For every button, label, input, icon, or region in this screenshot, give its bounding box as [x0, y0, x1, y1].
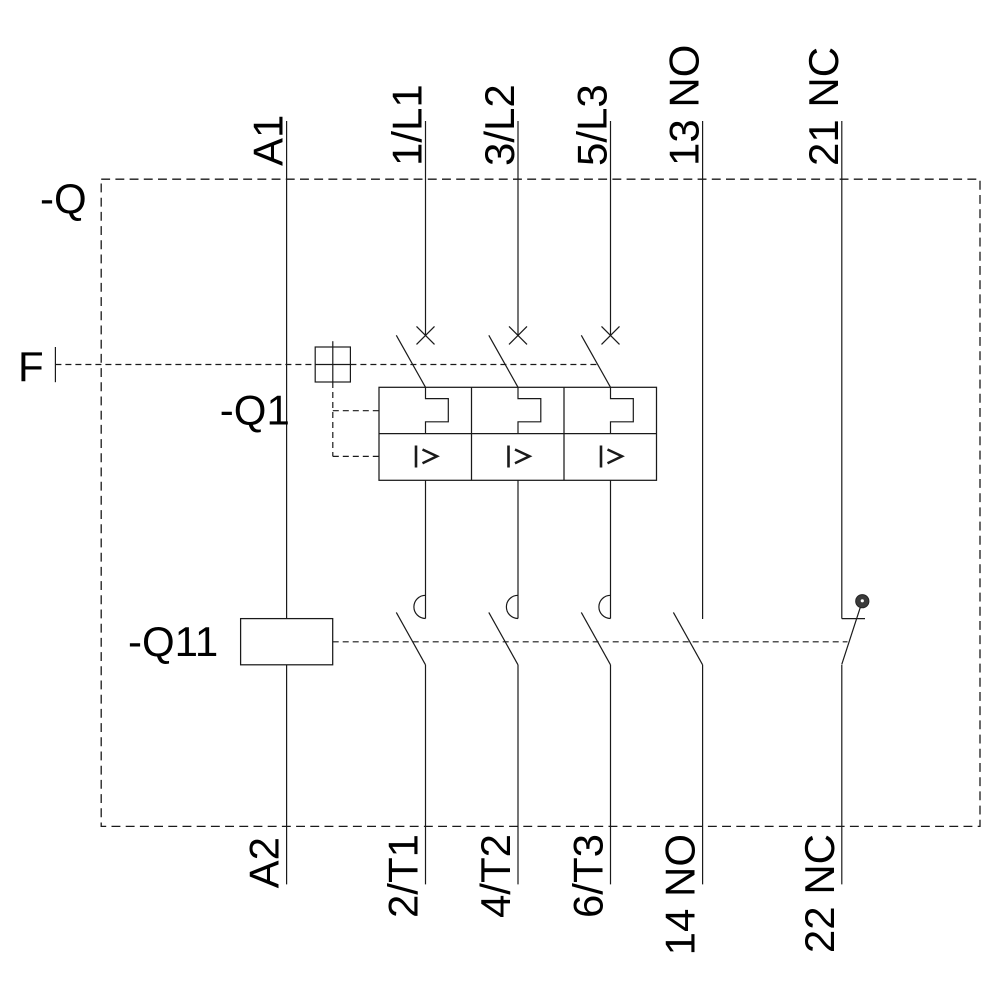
wire A1 terminal top	[286, 121, 288, 619]
svg-text:5/L3: 5/L3	[569, 84, 616, 166]
trip unit cell divider 1	[471, 387, 473, 480]
svg-text:A1: A1	[245, 115, 292, 166]
wire A2 terminal bottom	[286, 665, 288, 885]
svg-text:14 NO: 14 NO	[657, 834, 704, 955]
svg-text:3/L2: 3/L2	[476, 84, 523, 166]
wire 5/L3 terminal top	[610, 121, 612, 335]
wire 13 NO terminal top	[702, 121, 704, 619]
enclosure boundary -Q dashed frame	[101, 179, 980, 826]
breaker moving arm pole 1	[396, 335, 425, 387]
svg-text:2/T1: 2/T1	[380, 834, 427, 918]
breaker moving arm pole 2	[489, 335, 518, 387]
magnetic trip symbol I> pole 3	[601, 446, 622, 468]
NC positively driven dot	[856, 595, 869, 608]
manual operator square F	[315, 341, 350, 382]
svg-text:1/L1: 1/L1	[384, 84, 431, 166]
thermal trip hook pole 2	[518, 387, 541, 433]
svg-text:22 NC: 22 NC	[796, 834, 843, 953]
thermal trip hook pole 1	[426, 387, 449, 433]
operator-to-trip coupling dashed link	[333, 382, 379, 456]
main contact moving arm pole 2	[489, 612, 518, 664]
svg-text:21 NC: 21 NC	[800, 47, 847, 166]
wire 21 NC terminal top	[841, 121, 843, 619]
wire 3/L2 terminal top	[517, 121, 519, 335]
F linkage dashed wire right	[350, 364, 598, 366]
wire pole 1 box to main contact	[425, 480, 427, 618]
trip unit row divider	[379, 433, 657, 435]
svg-text:F: F	[18, 343, 44, 390]
wire 22 NC terminal bottom	[841, 665, 843, 885]
svg-text:4/T2: 4/T2	[472, 834, 519, 918]
main contact fixed arc pole 2	[506, 595, 518, 618]
svg-text:-Q1: -Q1	[220, 387, 290, 434]
coil -Q11	[241, 619, 333, 665]
svg-text:A2: A2	[241, 837, 288, 888]
magnetic trip symbol I> pole 1	[416, 446, 437, 468]
F linkage dashed wire left	[55, 364, 315, 366]
magnetic trip symbol I> pole 2	[509, 446, 530, 468]
main contact fixed arc pole 3	[599, 595, 611, 618]
wire pole 2 box to main contact	[517, 480, 519, 618]
svg-text:13 NO: 13 NO	[661, 45, 708, 166]
main contact fixed arc pole 1	[414, 595, 426, 618]
main contact moving arm pole 1	[396, 612, 425, 664]
wire 6/T3 terminal bottom	[610, 665, 612, 885]
wire 4/T2 terminal bottom	[517, 665, 519, 885]
contact actuator dashed link from coil	[333, 641, 848, 643]
main contact moving arm pole 3	[581, 612, 610, 664]
wire pole 3 box to main contact	[610, 480, 612, 618]
trip unit -Q1 outer box	[379, 387, 657, 480]
F terminator tick	[54, 347, 56, 382]
breaker moving arm pole 3	[581, 335, 610, 387]
breaker contact cross pole 3	[602, 326, 620, 344]
wire 2/T1 terminal bottom	[425, 665, 427, 885]
svg-text:-Q: -Q	[40, 175, 87, 222]
breaker contact cross pole 2	[509, 326, 527, 344]
wire 14 NO terminal bottom	[702, 665, 704, 885]
NC fixed contact seat	[842, 618, 865, 620]
trip unit cell divider 2	[563, 387, 565, 480]
aux NO contact moving arm	[673, 612, 702, 664]
thermal trip hook pole 3	[611, 387, 634, 433]
breaker contact cross pole 1	[417, 326, 435, 344]
aux NC contact moving arm	[842, 601, 863, 664]
svg-text:-Q11: -Q11	[128, 618, 218, 665]
wire 1/L1 terminal top	[425, 121, 427, 335]
svg-text:6/T3: 6/T3	[565, 834, 612, 918]
